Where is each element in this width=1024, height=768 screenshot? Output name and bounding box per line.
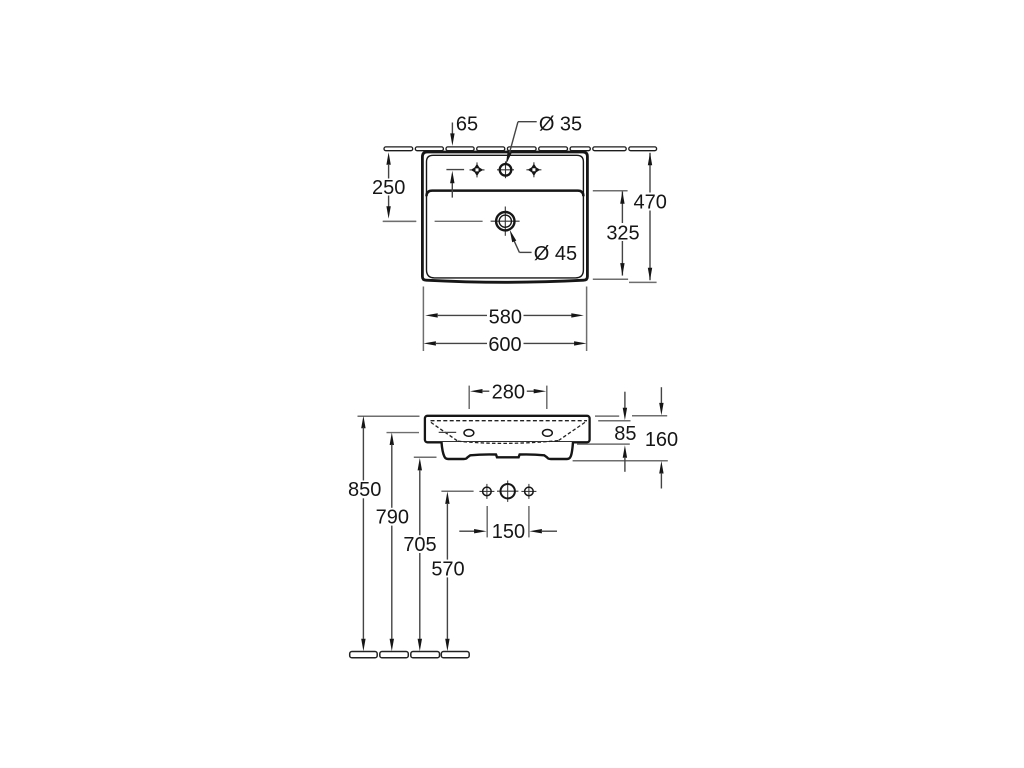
dim 600 bbox=[423, 341, 436, 345]
dim 325 bottom extension bbox=[593, 278, 628, 280]
dim 150 extensions bbox=[486, 506, 488, 537]
extension tap axis left (790) bbox=[387, 432, 420, 434]
drain crosshair bbox=[491, 207, 520, 236]
tap hole knockout left bbox=[471, 164, 484, 177]
extension holes axis left (570) bbox=[441, 490, 473, 492]
basin outer rim (top view) bbox=[422, 152, 587, 282]
dim 280 extensions bbox=[468, 386, 470, 409]
dashed bowl profile bottom bbox=[458, 441, 559, 444]
dim 570 bbox=[445, 491, 449, 504]
dim 325 bbox=[621, 191, 623, 223]
svg-text:160: 160 bbox=[645, 429, 678, 451]
dim 65 tick at tap axis bbox=[446, 169, 464, 171]
svg-text:65: 65 bbox=[456, 113, 478, 135]
svg-text:325: 325 bbox=[606, 222, 639, 244]
dim 150 bbox=[459, 530, 475, 532]
dim 250 bbox=[386, 152, 390, 165]
fixing hole right (side) bbox=[543, 430, 553, 437]
dashed bowl profile right bbox=[558, 422, 585, 440]
dim 705 bbox=[418, 458, 422, 471]
dim 325 top extension bbox=[593, 190, 628, 192]
leader diameter 45 bbox=[519, 251, 531, 253]
dashed waterline bbox=[431, 420, 588, 422]
drain center line inside basin bbox=[435, 220, 483, 222]
svg-text:Ø 35: Ø 35 bbox=[539, 113, 582, 135]
dim 470 bbox=[649, 153, 651, 193]
wall tiles line (top view) bbox=[384, 147, 657, 151]
svg-text:250: 250 bbox=[372, 177, 405, 199]
dim 470 bottom extension bbox=[629, 281, 657, 283]
svg-text:570: 570 bbox=[431, 558, 464, 580]
dim 280 bbox=[470, 389, 483, 393]
fixing hole left (side) bbox=[464, 430, 474, 437]
leader diameter 35 bbox=[518, 121, 537, 123]
svg-text:150: 150 bbox=[492, 521, 525, 543]
dim 85 bbox=[624, 392, 626, 409]
extension lines for 580/600 bbox=[422, 287, 424, 352]
dim 790 bbox=[390, 433, 394, 446]
extension body top left (850) bbox=[358, 415, 420, 417]
dim 580 bbox=[425, 313, 438, 317]
trap cover bbox=[442, 442, 574, 459]
side body bbox=[425, 416, 590, 443]
svg-text:790: 790 bbox=[376, 507, 409, 529]
extension trap bottom left (705) bbox=[414, 456, 437, 458]
mounting hole right (side) bbox=[521, 484, 536, 499]
dim 65 top arrow bbox=[451, 123, 453, 135]
tap axis segment inside body bbox=[439, 431, 457, 433]
dim 160 bbox=[660, 387, 662, 404]
mounting hole center (side) bbox=[497, 481, 518, 502]
drain center line left extension bbox=[383, 220, 416, 222]
right extensions (85/160) bbox=[595, 415, 619, 417]
dim 65 lower arrow bbox=[450, 171, 454, 184]
svg-text:280: 280 bbox=[492, 381, 525, 403]
svg-text:705: 705 bbox=[403, 534, 436, 556]
dashed bowl profile left bbox=[431, 422, 458, 441]
dim 325 label bbox=[604, 223, 642, 241]
floor tiles bbox=[350, 652, 469, 658]
dim 470 label bbox=[632, 193, 669, 211]
mounting hole left (side) bbox=[479, 484, 494, 499]
basin inner rim (top view) bbox=[427, 155, 584, 278]
dim 850 bbox=[361, 416, 365, 429]
tap hole knockout right bbox=[528, 164, 541, 177]
svg-text:600: 600 bbox=[488, 334, 521, 356]
svg-text:Ø 45: Ø 45 bbox=[534, 243, 577, 265]
drain inner circle bbox=[499, 215, 511, 227]
drain outer circle bbox=[496, 212, 514, 230]
svg-text:850: 850 bbox=[348, 479, 381, 501]
svg-text:470: 470 bbox=[634, 192, 667, 214]
svg-text:85: 85 bbox=[614, 423, 636, 445]
svg-text:580: 580 bbox=[489, 306, 522, 328]
tap hole center circle bbox=[497, 161, 514, 178]
bowl back edge (top view) bbox=[427, 191, 584, 197]
